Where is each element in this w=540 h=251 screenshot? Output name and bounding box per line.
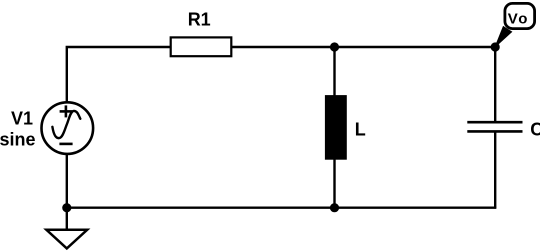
wire C top lead (494, 47, 496, 121)
svg-text:R1: R1 (188, 10, 211, 30)
wire from V1 top lead to R1 left terminal (67, 47, 171, 102)
V1 sine waveform symbol (52, 111, 80, 138)
wire bottom rail (67, 206, 496, 208)
V1 minus polarity mark (59, 143, 72, 146)
wire L bottom lead (333, 159, 335, 208)
junction at Vo node (491, 42, 500, 51)
capacitor C top plate (467, 121, 522, 124)
wire L top lead (333, 47, 335, 96)
svg-text:L: L (355, 120, 366, 140)
node Vo callout tail (495, 27, 511, 47)
wire V1 bottom lead (66, 155, 68, 208)
junction at R1/L node (330, 42, 339, 51)
junction at ground node (62, 203, 71, 212)
capacitor C bottom plate (467, 130, 522, 133)
junction at L bottom node (330, 203, 339, 212)
V1 plus polarity mark (60, 110, 73, 113)
wire C bottom lead (494, 132, 496, 208)
ground (46, 230, 87, 249)
svg-text:sine: sine (0, 129, 36, 149)
svg-text:C: C (530, 119, 540, 139)
inductor L (325, 95, 347, 160)
resistor R1 (171, 37, 232, 56)
svg-text:V1: V1 (11, 109, 33, 129)
wire ground lead (66, 208, 68, 230)
svg-text:Vo: Vo (508, 10, 529, 27)
voltage source V1 (42, 102, 94, 154)
node Vo box (505, 3, 535, 28)
wire R1 right terminal to L node (232, 46, 335, 48)
wire L node to Vo node (335, 46, 496, 48)
V1 circle body (42, 102, 94, 154)
